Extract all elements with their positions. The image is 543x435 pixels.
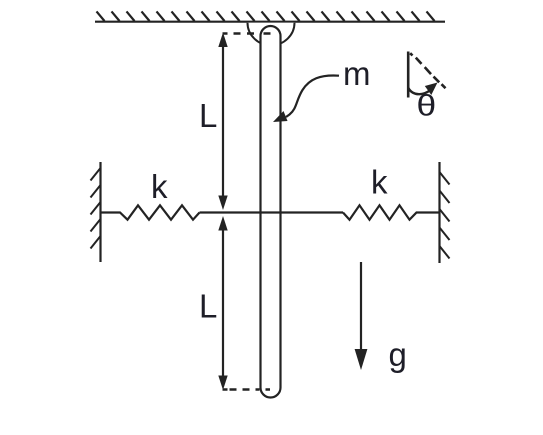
svg-text:L: L (199, 97, 217, 134)
left spring k (wall stub + zigzag) (101, 205, 200, 219)
gravity arrow g (360, 262, 362, 352)
arrowhead down (tip at mid line) (218, 196, 227, 211)
angle dashed incline (410, 53, 445, 88)
leader arrow from m to rod (286, 76, 339, 117)
left wall hatching (91, 168, 101, 249)
right wall hatching (440, 172, 450, 259)
dimension line L upper (222, 40, 224, 203)
angle reference vertical line (407, 52, 410, 98)
ceiling hatching (97, 11, 435, 21)
right spring k (zigzag + wall stub) (343, 205, 440, 219)
horizontal mid line through rod (200, 211, 344, 213)
ceiling (95, 21, 445, 23)
angle arrowhead (425, 83, 438, 96)
svg-text:θ: θ (417, 88, 437, 122)
angle arc arrow (408, 88, 429, 95)
svg-text:k: k (371, 164, 388, 201)
right wall (438, 162, 440, 263)
gravity arrowhead (355, 349, 368, 370)
pivot (hinge semicircle) (248, 23, 295, 46)
leader arrowhead (273, 111, 288, 122)
arrowhead up (tip at mid line) (218, 216, 227, 231)
svg-text:m: m (343, 55, 371, 92)
arrowhead up (tip at dashed top line) (218, 33, 227, 48)
dimension line L lower (222, 223, 224, 383)
dashed line at rod bottom (223, 388, 271, 391)
rod m (uniform rod, capsule) (261, 26, 281, 398)
svg-text:g: g (389, 336, 407, 373)
arrowhead down (tip at bottom dashed line) (218, 376, 227, 391)
svg-text:L: L (199, 288, 217, 325)
left wall (99, 162, 101, 262)
dashed line at rod top (223, 32, 271, 35)
svg-text:k: k (151, 168, 168, 205)
